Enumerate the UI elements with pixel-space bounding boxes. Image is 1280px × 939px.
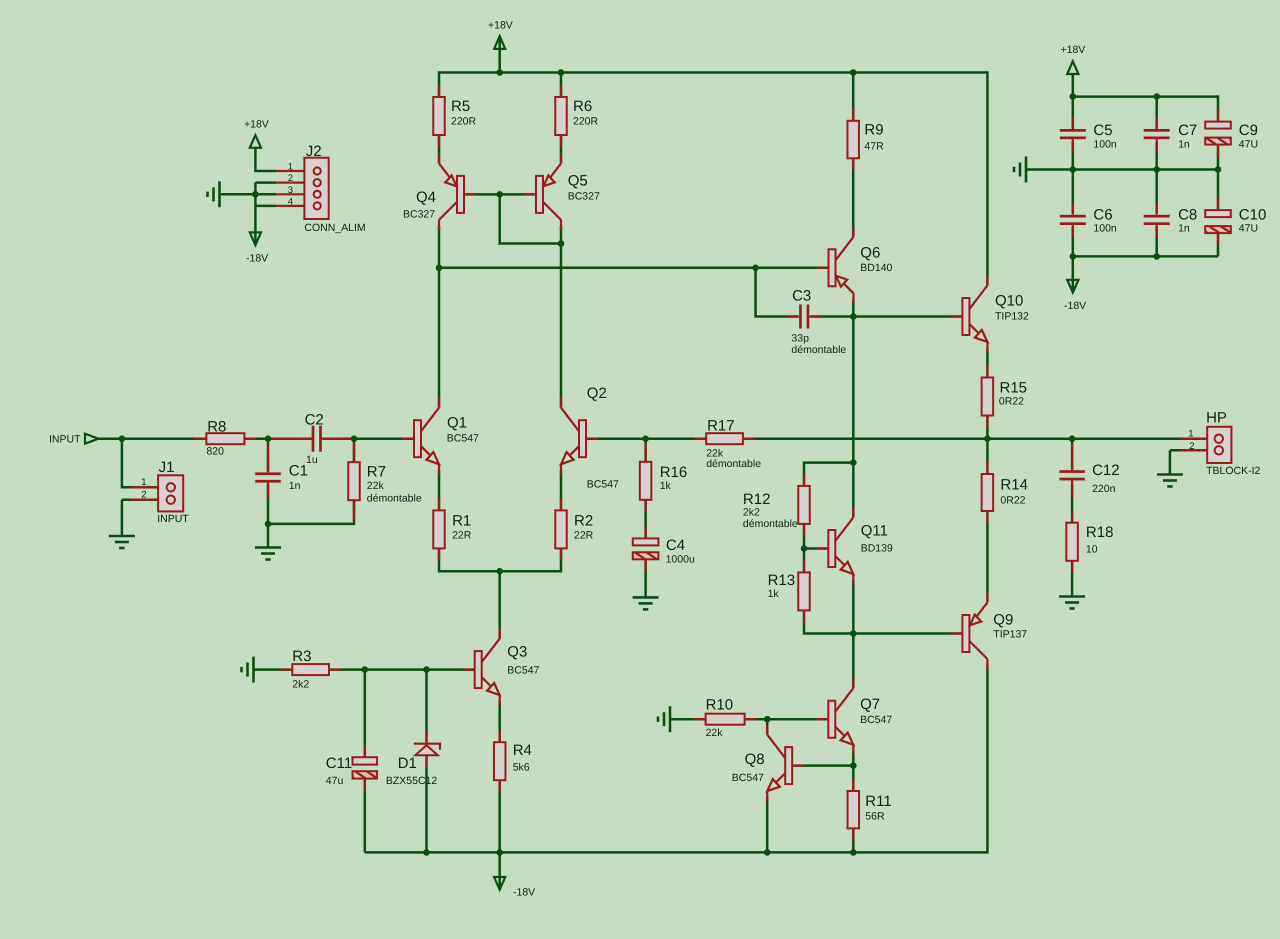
- junction: [850, 762, 857, 769]
- wire: [852, 634, 855, 688]
- svg-text:1: 1: [141, 477, 146, 488]
- ground: [633, 596, 659, 599]
- svg-text:0R22: 0R22: [1000, 495, 1025, 507]
- wire: [1155, 142, 1158, 170]
- svg-text:R6: R6: [573, 98, 592, 115]
- junction: [850, 630, 857, 637]
- wire: [1217, 145, 1220, 170]
- wire: [122, 439, 158, 488]
- svg-text:22R: 22R: [452, 530, 472, 542]
- svg-text:47U: 47U: [1239, 223, 1258, 235]
- svg-text:C3: C3: [792, 288, 811, 305]
- wire: [220, 193, 277, 196]
- transistor Q1: [402, 438, 414, 440]
- svg-text:C9: C9: [1239, 122, 1258, 139]
- svg-text:BC547: BC547: [732, 772, 764, 784]
- junction: [850, 849, 857, 856]
- wire: [439, 73, 987, 286]
- svg-text:Q4: Q4: [416, 189, 436, 206]
- svg-text:33p: 33p: [791, 333, 809, 345]
- svg-text:Q1: Q1: [447, 415, 467, 432]
- svg-text:1: 1: [1188, 429, 1193, 440]
- junction: [1069, 435, 1076, 442]
- svg-text:R14: R14: [1000, 477, 1028, 494]
- svg-text:démontable: démontable: [791, 344, 846, 356]
- wire: [986, 511, 989, 601]
- svg-text:TIP137: TIP137: [993, 629, 1027, 641]
- wire: [1072, 227, 1075, 257]
- svg-text:+18V: +18V: [488, 20, 513, 32]
- wire: [1169, 450, 1172, 474]
- svg-text:10: 10: [1086, 544, 1098, 556]
- transistor Q10: [950, 315, 962, 317]
- junction: [1215, 166, 1222, 173]
- junction: [1153, 253, 1160, 260]
- wire: [364, 780, 367, 853]
- svg-text:R4: R4: [513, 742, 532, 759]
- wire: [498, 571, 501, 638]
- junction: [1070, 166, 1077, 173]
- resistor R7: [353, 450, 355, 462]
- wire: [852, 580, 855, 634]
- svg-text:C2: C2: [305, 412, 324, 429]
- wire: [644, 439, 647, 462]
- wire: [1217, 233, 1220, 256]
- ground: [1025, 157, 1028, 183]
- capacitor C11: [364, 745, 366, 757]
- svg-text:démontable: démontable: [706, 458, 761, 470]
- resistor R14: [986, 462, 988, 474]
- junction: [764, 716, 771, 723]
- svg-text:1k: 1k: [660, 480, 672, 492]
- wire: [766, 719, 769, 734]
- svg-text:Q6: Q6: [860, 244, 880, 261]
- ground: [218, 181, 221, 207]
- svg-text:CONN_ALIM: CONN_ALIM: [304, 222, 365, 234]
- ground: [669, 706, 672, 732]
- wire: [852, 828, 855, 852]
- wire: [560, 134, 563, 163]
- wire: [986, 348, 989, 377]
- wire: [852, 299, 855, 517]
- junction: [436, 265, 443, 272]
- transistor Q5: [524, 193, 536, 195]
- resistor R8: [194, 438, 206, 440]
- junction: [850, 313, 857, 320]
- junction: [496, 69, 503, 76]
- junction: [764, 849, 771, 856]
- resistor R15: [986, 366, 988, 378]
- junction: [984, 435, 991, 442]
- svg-text:J1: J1: [159, 459, 175, 476]
- transistor Q4: [464, 193, 476, 195]
- svg-text:BZX55C12: BZX55C12: [386, 775, 438, 787]
- junction: [1153, 93, 1160, 100]
- wire: [804, 547, 828, 550]
- wire: [1071, 439, 1074, 470]
- svg-text:C6: C6: [1093, 207, 1112, 224]
- ground: [109, 535, 135, 538]
- svg-text:C8: C8: [1178, 207, 1197, 224]
- svg-text:R10: R10: [706, 697, 734, 714]
- wire: [324, 437, 414, 440]
- wire: [98, 437, 206, 440]
- wire: [644, 500, 647, 538]
- junction: [423, 849, 430, 856]
- wire: [438, 470, 441, 510]
- svg-text:820: 820: [206, 446, 224, 458]
- wire: [329, 668, 475, 671]
- svg-text:R3: R3: [292, 648, 311, 665]
- wire: [1072, 74, 1075, 97]
- svg-text:TBLOCK-I2: TBLOCK-I2: [1206, 465, 1260, 477]
- svg-text:R13: R13: [768, 572, 796, 589]
- wire: [986, 415, 989, 439]
- wire: [853, 632, 962, 635]
- transistor Q6: [817, 267, 829, 269]
- wire: [245, 437, 313, 440]
- wire: [792, 764, 853, 767]
- wire: [804, 611, 853, 634]
- wire: [498, 701, 501, 742]
- svg-text:2: 2: [141, 490, 146, 501]
- svg-text:+18V: +18V: [244, 118, 269, 130]
- wire: [268, 484, 354, 524]
- transistor Q9: [950, 632, 962, 634]
- ground: [1059, 595, 1085, 598]
- junction: [801, 545, 808, 552]
- wire: [267, 439, 270, 472]
- svg-text:C10: C10: [1239, 207, 1267, 224]
- svg-text:R9: R9: [864, 122, 883, 139]
- resistor R16: [644, 450, 646, 462]
- wire: [255, 181, 276, 184]
- svg-text:Q8: Q8: [745, 751, 765, 768]
- wire: [586, 437, 707, 440]
- wire: [255, 205, 276, 208]
- junction: [850, 69, 857, 76]
- connector HP: [1180, 438, 1207, 440]
- svg-text:220n: 220n: [1092, 483, 1116, 495]
- svg-text:2: 2: [1189, 441, 1194, 452]
- capacitor C3: [787, 315, 799, 317]
- wire: [803, 524, 806, 573]
- svg-text:C7: C7: [1178, 122, 1197, 139]
- wire: [498, 36, 501, 72]
- svg-text:INPUT: INPUT: [157, 513, 189, 525]
- wire: [743, 437, 1207, 440]
- resistor R2: [560, 498, 562, 510]
- junction: [558, 69, 565, 76]
- wire: [756, 268, 799, 317]
- capacitor C2: [300, 438, 312, 440]
- svg-text:J2: J2: [306, 143, 322, 160]
- svg-text:BC547: BC547: [860, 714, 892, 726]
- wire: [1155, 97, 1158, 129]
- wire: [464, 193, 536, 196]
- transistor Q3: [463, 668, 475, 670]
- wire: [986, 439, 989, 474]
- wire: [255, 148, 276, 171]
- wire: [1217, 170, 1220, 211]
- junction: [1070, 93, 1077, 100]
- svg-text:1n: 1n: [289, 480, 301, 492]
- wire: [1170, 449, 1207, 452]
- capacitor C1: [267, 460, 269, 472]
- svg-text:47U: 47U: [1239, 139, 1258, 151]
- junction: [351, 435, 358, 442]
- wire: [121, 500, 124, 536]
- svg-text:BD139: BD139: [861, 543, 893, 555]
- svg-text:2k2: 2k2: [743, 507, 760, 519]
- junction: [265, 521, 272, 528]
- wire: [365, 664, 988, 852]
- svg-text:1000u: 1000u: [666, 554, 695, 566]
- capacitor C7: [1156, 117, 1158, 129]
- diode D1: [425, 732, 427, 744]
- resistor R17: [694, 438, 706, 440]
- wire: [122, 498, 158, 501]
- svg-text:R2: R2: [574, 513, 593, 530]
- wire: [852, 751, 855, 791]
- wire: [810, 315, 853, 318]
- capacitor C4: [644, 526, 646, 538]
- ground: [1157, 473, 1183, 476]
- svg-text:Q3: Q3: [507, 644, 527, 661]
- resistor R3: [280, 668, 292, 670]
- junction: [119, 435, 126, 442]
- junction: [252, 191, 259, 198]
- power -18V: [1067, 280, 1078, 293]
- wire: [1071, 485, 1074, 523]
- svg-text:-18V: -18V: [1064, 300, 1086, 312]
- wire: [670, 718, 706, 721]
- svg-text:Q2: Q2: [587, 385, 607, 402]
- svg-text:-18V: -18V: [513, 887, 535, 899]
- svg-text:R1: R1: [452, 513, 471, 530]
- svg-text:Q10: Q10: [995, 293, 1023, 310]
- svg-text:1n: 1n: [1178, 223, 1190, 235]
- power +18V: [494, 36, 505, 49]
- capacitor C9: [1217, 110, 1219, 122]
- svg-text:C1: C1: [289, 463, 308, 480]
- resistor R13: [803, 560, 805, 572]
- wire: [1071, 561, 1074, 597]
- wire: [644, 560, 647, 598]
- svg-text:démontable: démontable: [743, 518, 798, 530]
- junction: [752, 265, 759, 272]
- svg-text:BC547: BC547: [447, 433, 479, 445]
- connector J2: [276, 170, 304, 172]
- junction: [496, 191, 503, 198]
- svg-text:Q11: Q11: [861, 523, 888, 540]
- wire: [853, 315, 962, 318]
- svg-text:22R: 22R: [574, 530, 594, 542]
- svg-text:0R22: 0R22: [999, 396, 1024, 408]
- resistor R4: [499, 730, 501, 742]
- resistor R9: [852, 109, 854, 121]
- wire: [852, 73, 855, 121]
- svg-text:D1: D1: [398, 755, 417, 772]
- wire: [745, 718, 829, 721]
- junction: [1070, 253, 1077, 260]
- svg-text:R11: R11: [865, 793, 891, 810]
- svg-text:Q5: Q5: [568, 173, 588, 190]
- wire: [425, 670, 428, 744]
- wire: [254, 183, 257, 206]
- svg-text:C5: C5: [1093, 122, 1112, 139]
- wire: [560, 226, 563, 407]
- svg-text:100n: 100n: [1093, 139, 1117, 151]
- svg-text:1n: 1n: [1178, 139, 1190, 151]
- wire: [1073, 97, 1218, 122]
- junction: [362, 666, 369, 673]
- capacitor C6: [1072, 203, 1074, 215]
- svg-text:1: 1: [288, 162, 293, 173]
- capacitor C8: [1156, 203, 1158, 215]
- svg-text:Q7: Q7: [860, 696, 880, 713]
- ground: [252, 657, 255, 683]
- wire: [364, 670, 367, 758]
- svg-text:22k: 22k: [706, 727, 724, 739]
- capacitor C5: [1072, 117, 1074, 129]
- svg-text:5k6: 5k6: [513, 762, 530, 774]
- svg-text:3: 3: [288, 185, 293, 196]
- svg-text:220R: 220R: [573, 116, 599, 128]
- resistor R1: [438, 498, 440, 510]
- wire: [438, 226, 441, 407]
- junction: [496, 568, 503, 575]
- svg-text:Q9: Q9: [993, 612, 1013, 629]
- svg-text:R16: R16: [660, 464, 688, 481]
- svg-text:BC327: BC327: [403, 209, 435, 221]
- svg-text:C11: C11: [326, 755, 352, 772]
- svg-text:C12: C12: [1092, 462, 1120, 479]
- wire: [439, 549, 561, 572]
- resistor R6: [560, 85, 562, 97]
- connector J1: [130, 486, 158, 488]
- wire: [560, 73, 563, 98]
- svg-text:R8: R8: [207, 418, 226, 435]
- wire: [766, 797, 769, 852]
- wire: [1073, 255, 1218, 258]
- wire: [1072, 97, 1075, 129]
- svg-text:56R: 56R: [865, 811, 885, 823]
- svg-text:BC547: BC547: [587, 479, 619, 491]
- svg-text:BC547: BC547: [507, 665, 539, 677]
- junction: [558, 240, 565, 247]
- power -18V: [250, 232, 261, 245]
- wire: [1155, 170, 1158, 214]
- wire: [267, 524, 270, 548]
- wire: [353, 439, 356, 463]
- wire: [852, 158, 855, 236]
- svg-text:BC327: BC327: [568, 191, 600, 203]
- wire: [1072, 142, 1075, 170]
- junction: [850, 459, 857, 466]
- wire: [254, 668, 293, 671]
- wire: [425, 755, 428, 852]
- wire: [498, 781, 501, 853]
- svg-text:R5: R5: [451, 98, 470, 115]
- junction: [642, 435, 649, 442]
- transistor Q7: [816, 718, 828, 720]
- resistor R18: [1071, 511, 1073, 523]
- svg-text:HP: HP: [1206, 410, 1227, 427]
- wire: [439, 267, 829, 270]
- svg-text:1k: 1k: [768, 588, 780, 600]
- svg-text:4: 4: [288, 196, 293, 207]
- transistor Q11: [816, 547, 828, 549]
- svg-text:220R: 220R: [451, 116, 477, 128]
- wire: [1026, 168, 1218, 171]
- transistor Q2: [586, 438, 598, 440]
- wire: [560, 470, 563, 510]
- svg-text:47u: 47u: [326, 775, 344, 787]
- svg-text:démontable: démontable: [367, 493, 422, 505]
- capacitor C10: [1217, 198, 1219, 210]
- svg-text:R17: R17: [707, 418, 735, 435]
- junction: [423, 666, 430, 673]
- wire: [498, 852, 501, 889]
- svg-text:R7: R7: [367, 464, 386, 481]
- wire: [1072, 256, 1075, 292]
- svg-text:-18V: -18V: [246, 253, 268, 265]
- junction: [265, 435, 272, 442]
- power +18V: [250, 135, 261, 148]
- wire: [804, 463, 853, 486]
- junction: [1153, 166, 1160, 173]
- svg-text:47R: 47R: [864, 141, 884, 153]
- resistor R12: [803, 474, 805, 486]
- transistor Q8: [792, 764, 804, 766]
- svg-text:R18: R18: [1086, 524, 1114, 541]
- junction: [496, 849, 503, 856]
- svg-text:INPUT: INPUT: [49, 434, 81, 446]
- capacitor C12: [1071, 458, 1073, 470]
- svg-text:+18V: +18V: [1061, 44, 1086, 56]
- wire: [500, 194, 561, 243]
- wire: [1155, 227, 1158, 257]
- resistor R5: [438, 85, 440, 97]
- power -18V: [494, 877, 505, 890]
- svg-text:2: 2: [288, 173, 293, 184]
- power +18V: [1067, 61, 1078, 74]
- resistor R10: [694, 718, 706, 720]
- svg-text:BD140: BD140: [860, 262, 892, 274]
- svg-text:R12: R12: [743, 491, 771, 508]
- wire: [438, 134, 441, 163]
- wire: [254, 206, 257, 245]
- terminal INPUT: [85, 434, 98, 444]
- svg-text:TIP132: TIP132: [995, 311, 1029, 323]
- svg-text:100n: 100n: [1093, 223, 1117, 235]
- resistor R11: [852, 779, 854, 791]
- ground: [255, 546, 281, 549]
- wire: [1072, 170, 1075, 214]
- svg-text:22k: 22k: [367, 480, 385, 492]
- svg-text:C4: C4: [666, 537, 685, 554]
- svg-text:2k2: 2k2: [292, 679, 309, 691]
- svg-text:R15: R15: [1000, 380, 1028, 397]
